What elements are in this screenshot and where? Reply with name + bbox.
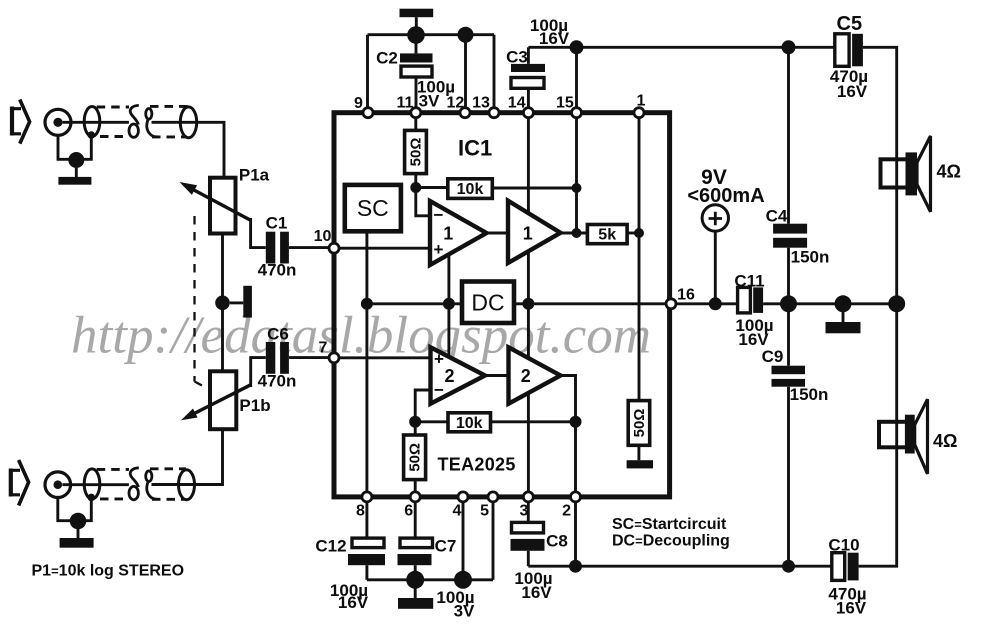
resistor 5k [587,225,627,244]
svg-text:C12: C12 [315,537,346,556]
wire pin14/pin3 vertical [527,118,530,493]
capacitor C4 [773,47,807,304]
junction 10k/pin15 [572,183,582,193]
svg-text:P1b: P1b [239,396,270,415]
wire pin1 vertical [638,118,641,401]
node 50ohm/10k [410,182,421,193]
op-amp 1a [430,201,487,265]
junction pin12 rail [458,27,474,43]
node 10k ch2 [409,416,421,428]
svg-text:150n: 150n [790,385,829,404]
capacitor C6 [266,342,289,374]
wire P1a wiper to C1 [251,218,266,248]
svg-text:1: 1 [443,224,453,244]
ground (bottom) [398,580,433,609]
svg-text:16V: 16V [837,82,868,101]
wire 50ohm to node [414,174,417,188]
wire amp1a out [484,232,510,235]
pin 7 [329,353,339,363]
svg-text:470n: 470n [258,372,297,391]
wire 50ohm ch2 [414,422,417,435]
svg-text:13: 13 [472,95,490,112]
svg-text:50Ω: 50Ω [631,409,648,438]
capacitor C12 [348,502,385,580]
cable 1 dashed body [97,107,129,137]
svg-text:16: 16 [677,287,695,304]
svg-text:50Ω: 50Ω [408,138,425,167]
wire pin5 [492,502,495,580]
cable twist 1 [129,105,158,137]
svg-text:4Ω: 4Ω [933,431,957,451]
svg-text:+: + [434,240,444,259]
wire 5k to pin1 line [627,232,639,235]
wire amp1b out [558,232,587,235]
wire amp2b out to pin2 [558,376,576,493]
wire C8 rail [528,565,832,568]
svg-text:P1=10k log STEREO: P1=10k log STEREO [32,563,185,580]
svg-text:3: 3 [520,503,529,520]
svg-text:12: 12 [447,95,465,112]
svg-text:C8: C8 [546,532,568,551]
svg-text:C7: C7 [435,537,457,556]
capacitor C11 [738,287,897,313]
junction C2 top [407,26,425,44]
svg-text:16V: 16V [836,599,867,618]
wire pin4 [462,502,465,580]
capacitor C1 [266,232,289,264]
capacitor C3 [511,47,577,108]
svg-text:470n: 470n [258,261,297,280]
capacitor C9 [772,304,806,566]
svg-text:8: 8 [356,503,365,520]
speaker 2 [879,399,928,474]
op-amp 2b [509,347,561,403]
svg-text:7: 7 [319,340,328,357]
wire C10 to speaker2 [859,304,897,566]
junction C9 bottom [782,560,795,573]
pin 1 [634,108,644,118]
svg-text:6: 6 [404,503,413,520]
wire pin12 [464,42,467,108]
cable shield 1 left ellipse [84,107,100,137]
junction pin4 rail [454,571,472,589]
RCA jack 2 [45,472,71,498]
potentiometer P1b [181,371,251,429]
pin 4 [458,492,468,502]
svg-text:2: 2 [444,366,454,386]
cable 2 dashed body [150,106,188,136]
svg-text:DC=Decoupling: DC=Decoupling [612,533,730,550]
ground (input 1) [58,168,91,185]
svg-text:5k: 5k [598,227,616,244]
svg-text:C4: C4 [766,207,788,226]
wire pin9 to top rail [366,35,369,109]
svg-text:C9: C9 [762,347,784,366]
svg-text:16V: 16V [738,330,769,349]
wire 50ohm ch2 to pin6 [414,480,417,493]
wire top rail C2 [368,33,495,36]
pin 5 [488,492,498,502]
svg-text:16V: 16V [338,593,369,612]
pin 10 [329,243,339,253]
svg-text:C1: C1 [266,214,288,233]
svg-text:16V: 16V [521,583,552,602]
svg-text:150n: 150n [791,248,830,267]
junction C4 top [782,40,796,54]
svg-text:−: − [434,206,444,225]
svg-text:C10: C10 [828,536,859,555]
DC box [462,282,514,324]
wire pin7 to plus input ch2 [339,356,431,359]
wire top rail right [577,46,835,49]
shield tap 2 [78,494,95,521]
svg-text:5: 5 [480,503,489,520]
junction pin2 rail [569,560,582,573]
wire amp2a out [483,374,510,377]
capacitor C2 [400,43,433,108]
junction ground rail [835,295,852,312]
svg-text:C3: C3 [506,48,528,67]
svg-text:SC=Startcircuit: SC=Startcircuit [612,516,727,533]
pin 2 [571,492,581,502]
wire junction to pin15 [575,47,578,108]
pin 6 [410,492,420,502]
pin 14 [523,108,533,118]
wire minus ch2 [415,390,430,422]
pin 12 [460,108,470,118]
wire 10k to pin15 line [492,187,576,190]
potentiometer P1a [180,178,251,234]
svg-text:DC: DC [471,290,504,316]
capacitor C7 [398,502,433,580]
input arrow 2 [10,460,29,506]
wire RCA1 to cable [63,121,129,124]
wire node to 10k [416,186,448,189]
wire P1b bottom to cable2 [152,429,223,484]
junction speaker rail [888,295,905,312]
junction C4/C9 rail [780,295,797,312]
wire cable1 to P1a [152,122,225,177]
wire P1a bottom [221,234,224,372]
battery 9V [702,205,728,304]
pin 8 [362,492,372,502]
svg-text:1: 1 [637,93,646,110]
svg-text:<600mA: <600mA [687,185,764,207]
svg-text:−: − [434,381,444,400]
junction input1 ground [68,152,84,168]
junction 9V rail [709,297,722,310]
svg-text:IC1: IC1 [458,136,492,161]
pin 3 [523,492,533,502]
svg-text:3V: 3V [454,602,475,621]
cable 4 right ellipse [179,470,195,500]
input arrow 1 [11,100,30,144]
wire bottom rail [367,578,493,581]
svg-text:10k: 10k [456,415,483,432]
junction out/pin15 [572,228,582,238]
svg-text:16V: 16V [539,29,570,48]
wire C1 to pin10 [289,246,334,249]
wire pin10 to plus input [339,247,431,250]
wire pin13 [493,35,496,109]
node DC right [522,298,534,310]
resistor 50ohm (right) [628,401,650,461]
capacitor C8 [511,502,545,566]
svg-text:2: 2 [521,366,531,386]
wire pin11 to 50ohm [414,118,417,131]
resistor 50ohm (ch1) [405,130,427,173]
shield tap 1 [76,131,95,159]
capacitor C5 [835,34,863,67]
wire 10k ch2 to out line [491,420,576,423]
wire node to 10k ch2 [415,420,448,423]
ground (top C2) [400,9,434,28]
svg-text:C5: C5 [837,13,863,35]
junction 5k/pin1 [634,228,644,238]
cable 3 dashed body [97,469,129,499]
svg-text:C2: C2 [376,49,398,68]
svg-text:1: 1 [523,224,533,244]
gang coupling dashed [195,216,209,389]
pin 11 [411,108,421,118]
junction C7 ground [406,571,424,589]
svg-text:14: 14 [508,95,526,112]
op-amp 1b [508,201,561,263]
wire P1b wiper to C6 [251,358,266,387]
svg-text:15: 15 [556,95,574,112]
wire RCA2 to cable [62,483,128,486]
pin 9 [363,108,373,118]
svg-text:3V: 3V [419,92,440,111]
resistor 10k (ch1) [448,179,493,199]
ground (mid rail) [826,304,861,334]
wire RCA1 ground [58,135,76,159]
RCA jack 1 [45,109,71,135]
pin 15 [572,108,582,118]
ground (right 50ohm) [627,460,653,468]
wire C5 to speaker1 [863,47,897,304]
cable 2 right ellipse [180,107,196,138]
svg-text:C11: C11 [734,272,764,291]
junction out ch2 [570,416,582,428]
resistor 10k (ch2) [448,413,491,432]
op-amp 2a [431,347,486,403]
svg-text:+: + [434,350,444,369]
svg-text:10k: 10k [457,181,484,198]
junction SC/DC line [361,298,373,310]
svg-text:11: 11 [397,95,414,112]
wire DC to pin16 [514,302,738,305]
node DC left [443,298,455,310]
junction input2 ground [70,513,87,530]
svg-text:TEA2025: TEA2025 [438,455,516,475]
wire pin15 vertical [575,118,578,233]
svg-text:C6: C6 [267,325,289,344]
svg-text:SC: SC [357,195,389,221]
svg-text:http://edatasl.blogspot.com: http://edatasl.blogspot.com [71,307,651,365]
svg-text:10: 10 [314,228,332,245]
wire pin2 down [574,492,577,566]
svg-text:P1a: P1a [239,166,270,185]
cable twist 2 [129,468,158,500]
junction P1 shield [215,296,230,311]
SC box [345,185,401,231]
IC1 box outline [334,113,670,497]
svg-text:50Ω: 50Ω [407,443,424,472]
svg-text:2: 2 [562,503,571,520]
wire RCA2 ground [58,498,78,521]
speaker 1 [881,136,931,212]
wire DC node vertical [447,254,450,356]
pin 13 [489,108,499,118]
cable shield 2 left ellipse [84,469,100,499]
svg-text:4Ω: 4Ω [937,162,961,182]
svg-text:9: 9 [354,95,363,112]
resistor 50ohm (ch2) [404,435,426,480]
wire DC line [367,302,462,305]
capacitor C10 [832,553,859,581]
wire SC to pin8 [365,231,368,492]
svg-text:4: 4 [453,503,462,520]
pin 16 [666,299,676,309]
wire node to minus input [416,188,430,216]
shield terminal bar [230,286,252,318]
ground (input 2) [60,529,94,548]
junction pin15 top [570,40,584,54]
wire C6 to pin7 [289,356,334,359]
cable 4 dashed body [150,469,186,500]
